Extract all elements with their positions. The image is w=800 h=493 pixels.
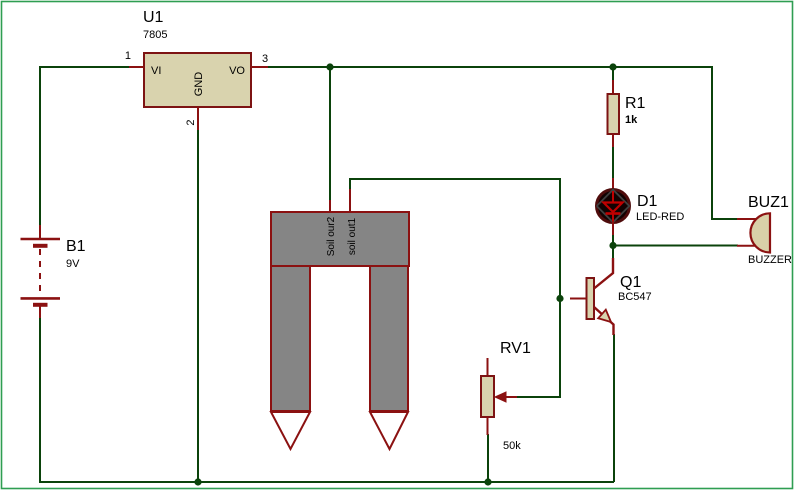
transistor Q1 BC547 [570,258,652,335]
pin soil our2 [329,200,331,213]
svg-text:B1: B1 [66,238,86,255]
svg-text:9V: 9V [66,258,80,270]
pin 3 U1 VO [251,53,268,67]
svg-text:Q1: Q1 [620,274,641,291]
wire soil out1 to Q1 base / RV1 wiper [350,179,560,397]
svg-text:1: 1 [125,50,131,62]
soil moisture sensor header [271,212,409,266]
svg-text:BUZZER: BUZZER [748,254,792,266]
svg-text:R1: R1 [625,95,646,112]
svg-text:soil out1: soil out1 [347,217,358,255]
wire R1 top [612,67,614,81]
battery B1 9V [21,225,86,318]
wire U1 GND down to bottom rail [197,129,199,482]
wire U1 VO to top rail and down right side to buzzer top [268,67,738,219]
svg-text:VI: VI [151,65,161,77]
svg-text:VO: VO [229,65,245,77]
svg-text:2: 2 [185,119,197,125]
pin soil out1 [349,189,351,213]
svg-text:50k: 50k [503,440,521,452]
wire RV1 bottom to rail [487,434,489,482]
wire junction down to Q1 collector [612,246,614,260]
svg-text:LED-RED: LED-RED [636,211,684,223]
potentiometer RV1 50k [481,340,531,452]
pin 2 U1 GND [185,107,198,130]
node junction top rail / R1 [609,63,616,70]
buzzer BUZ1 [737,194,792,266]
wire soil out2 up to top rail [329,67,331,201]
node junction bottom rail / RV1 [484,478,491,485]
svg-text:RV1: RV1 [500,340,531,357]
wire battery top to U1 VI (top-left rail) [40,67,130,226]
op-amp U1 7805 regulator body [143,9,251,107]
svg-text:3: 3 [262,53,268,65]
soil sensor left prong [271,266,310,449]
wire Q1 emitter to bottom rail [613,334,615,482]
svg-text:U1: U1 [143,9,164,26]
svg-text:GND: GND [193,72,205,97]
node junction top rail / soil out2 [326,63,333,70]
wire R1 bottom to D1 [612,146,614,179]
resistor R1 1k [608,80,646,147]
svg-text:BC547: BC547 [618,291,652,303]
svg-text:Soil our2: Soil our2 [326,216,337,256]
node junction Q1 base [556,295,563,302]
pin 1 U1 VI [125,50,144,67]
svg-text:7805: 7805 [143,29,167,41]
svg-text:BUZ1: BUZ1 [748,194,789,211]
svg-text:D1: D1 [637,193,658,210]
wire junction to buzzer bottom pin [613,245,738,247]
svg-text:1k: 1k [625,114,638,126]
node junction D1 / Q1 collector / buzzer [609,242,616,249]
node junction bottom rail / U1 GND [194,478,201,485]
wire bottom rail [40,317,614,482]
diode D1 LED-RED [597,178,685,235]
soil sensor right prong [370,266,408,449]
wire D1 cathode to junction [612,234,614,246]
